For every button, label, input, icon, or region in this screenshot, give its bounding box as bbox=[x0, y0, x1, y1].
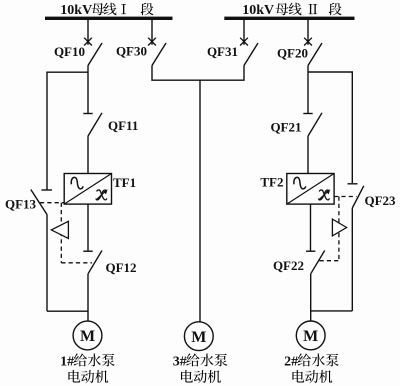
wire: QF21 to TF2 bbox=[307, 136, 309, 173]
breaker QF10: drop wire from bus bbox=[87, 20, 89, 45]
wire: QF12 to motor junction bbox=[87, 274, 89, 321]
dashed interlock: right vertical run bbox=[338, 197, 340, 261]
breaker QF11: fixed contact tick bbox=[83, 113, 92, 115]
wire: junction to right bypass branch bbox=[308, 72, 352, 183]
bus II label 10kV母线II段 bbox=[242, 3, 341, 18]
breaker QF21: switch blade bbox=[308, 113, 322, 136]
svg-text:QF20: QF20 bbox=[277, 46, 308, 61]
motor M1 circle bbox=[73, 321, 102, 350]
motor M2 circle bbox=[296, 321, 325, 350]
breaker QF11: switch blade bbox=[88, 113, 102, 136]
breaker QF30: open-position X contact bbox=[148, 38, 156, 46]
bus II bar: 10kV bus section II bbox=[224, 17, 354, 20]
breaker QF21: fixed contact tick bbox=[303, 113, 312, 115]
breaker QF12: switch blade bbox=[88, 251, 102, 274]
breaker QF23 blade bbox=[352, 186, 364, 208]
svg-text:QF22: QF22 bbox=[273, 258, 304, 273]
TF2 variable-frequency x with arrow bbox=[319, 189, 331, 200]
svg-text:QF21: QF21 bbox=[270, 120, 301, 135]
breaker QF10: open-position X contact bbox=[84, 38, 92, 46]
dashed interlock: TF2 corner to QF23 blade bbox=[334, 196, 356, 198]
wire: QF10 blade bottom to junction bbox=[87, 66, 89, 114]
svg-text:QF10: QF10 bbox=[54, 44, 85, 59]
svg-text:M: M bbox=[80, 328, 95, 345]
TF1 diagonal divider bbox=[64, 174, 111, 205]
breaker QF30: drop wire from bus bbox=[151, 20, 153, 45]
wire: QF13 down the left bypass bbox=[46, 215, 48, 312]
svg-text:QF13: QF13 bbox=[5, 197, 37, 212]
svg-text:QF12: QF12 bbox=[106, 260, 137, 275]
TF2 diagonal divider bbox=[287, 174, 334, 205]
svg-text:1#: 1# bbox=[60, 354, 74, 369]
svg-text:10kV: 10kV bbox=[242, 3, 274, 18]
wire: QF22 to motor junction bbox=[310, 274, 312, 321]
breaker QF22: switch blade bbox=[311, 251, 325, 274]
dashed interlock: QF13 blade to TF1 corner bbox=[40, 202, 64, 204]
motor M3 circle bbox=[184, 322, 213, 351]
wire: QF20 blade bottom down bbox=[307, 66, 309, 114]
breaker QF30: switch blade bbox=[152, 43, 166, 66]
wire: TF1 bottom to QF12 bbox=[87, 204, 89, 251]
wire: QF30 down to common point bbox=[152, 66, 244, 81]
frequency converter TF2: box bbox=[287, 174, 334, 205]
breaker QF31: drop wire from bus bbox=[243, 20, 245, 45]
breaker QF13 fixed contact tick bbox=[41, 189, 52, 191]
svg-text:TF1: TF1 bbox=[113, 175, 136, 190]
svg-text:M: M bbox=[191, 329, 206, 346]
svg-text:10kV: 10kV bbox=[60, 3, 92, 18]
breaker QF23 fixed contact tick bbox=[348, 183, 358, 185]
breaker QF13 blade bbox=[31, 190, 47, 215]
bus I bar: 10kV bus section I bbox=[45, 17, 173, 20]
breaker QF20: open-position X contact bbox=[304, 38, 312, 46]
breaker QF31: open-position X contact bbox=[240, 38, 248, 46]
wire: right bypass bottom tie bbox=[311, 310, 353, 312]
TF1 sine symbol (AC) bbox=[71, 177, 83, 188]
breaker QF22: fixed contact tick bbox=[306, 250, 315, 252]
wire: junction to left bypass branch bbox=[47, 72, 88, 190]
breaker QF31: switch blade bbox=[244, 43, 258, 66]
breaker QF12: fixed contact tick bbox=[83, 250, 92, 252]
breaker QF10: switch blade bbox=[88, 43, 102, 66]
svg-text:QF23: QF23 bbox=[365, 193, 397, 208]
dashed interlock: left vertical run bbox=[60, 203, 62, 263]
dashed interlock: run to QF12 blade bbox=[61, 262, 92, 264]
dashed interlock: run to QF22 blade bbox=[320, 260, 339, 262]
wire: QF23 down the right bypass bbox=[351, 208, 353, 311]
svg-text:2#: 2# bbox=[284, 354, 298, 369]
wire: QF11 to TF1 bbox=[87, 136, 89, 173]
svg-text:QF11: QF11 bbox=[108, 118, 138, 133]
TF2 sine symbol (AC) bbox=[294, 177, 306, 188]
svg-text:TF2: TF2 bbox=[260, 175, 283, 190]
breaker QF20: drop wire from bus bbox=[307, 20, 309, 45]
frequency converter TF1: box bbox=[64, 174, 111, 205]
right interlock arrowhead triangle (points right) bbox=[332, 219, 346, 236]
breaker QF20: switch blade bbox=[308, 43, 322, 66]
left interlock arrowhead triangle (points left) bbox=[51, 221, 68, 238]
wire: left bypass bottom tie bbox=[47, 310, 88, 312]
wire: middle feeder down to motor 3 bbox=[199, 80, 201, 321]
bus I label 10kV母线I段 bbox=[60, 3, 153, 18]
svg-text:QF31: QF31 bbox=[207, 44, 238, 59]
svg-text:QF30: QF30 bbox=[116, 44, 147, 59]
svg-text:M: M bbox=[303, 328, 318, 345]
wire: TF2 bottom to QF22 bbox=[310, 204, 312, 251]
TF1 variable-frequency x with arrow bbox=[96, 189, 108, 200]
svg-text:3#: 3# bbox=[173, 354, 187, 369]
